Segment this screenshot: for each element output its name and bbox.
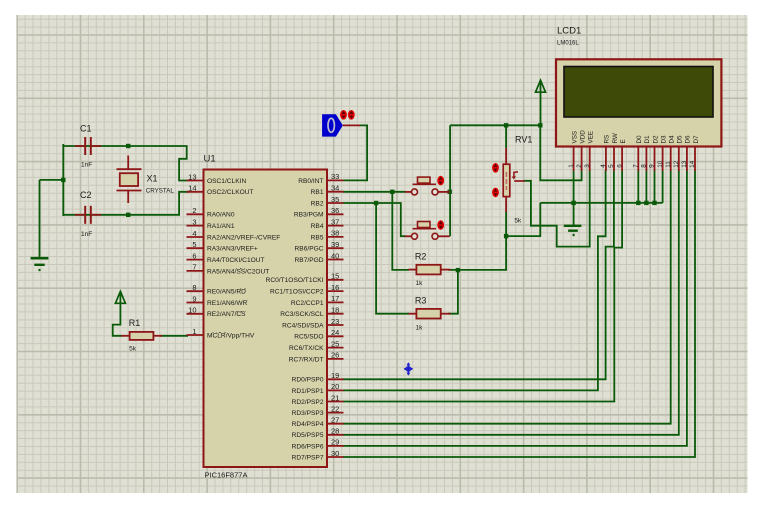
svg-text:U1: U1 [204,154,216,165]
svg-text:R3: R3 [415,296,427,306]
svg-text:RA2/AN2/VREF-/CVREF: RA2/AN2/VREF-/CVREF [207,234,280,241]
svg-text:39: 39 [331,240,339,249]
svg-text:RE0/AN5/RD: RE0/AN5/RD [207,289,246,296]
svg-text:RE1/AN6/WR: RE1/AN6/WR [207,300,248,307]
svg-text:RD7/PSP7: RD7/PSP7 [292,454,324,461]
svg-text:14: 14 [188,184,196,193]
svg-text:RA4/T0CKI/C1OUT: RA4/T0CKI/C1OUT [207,257,265,264]
svg-text:RD4/PSP4: RD4/PSP4 [292,421,324,428]
svg-text:RA5/AN4/SS/C2OUT: RA5/AN4/SS/C2OUT [207,268,269,275]
svg-text:RD3/PSP3: RD3/PSP3 [292,410,324,417]
svg-text:RC4/SDI/SDA: RC4/SDI/SDA [282,322,324,329]
svg-text:34: 34 [331,184,339,193]
svg-text:17: 17 [331,294,339,303]
svg-text:D0: D0 [636,135,643,144]
svg-text:5: 5 [608,164,615,168]
svg-text:21: 21 [331,393,339,402]
svg-text:36: 36 [331,206,339,215]
svg-text:RD2/PSP2: RD2/PSP2 [292,399,324,406]
svg-text:R2: R2 [415,251,427,261]
svg-text:11: 11 [665,161,672,168]
svg-text:35: 35 [331,195,339,204]
svg-text:E: E [620,139,627,143]
svg-text:D3: D3 [660,135,667,144]
svg-text:23: 23 [331,317,339,326]
svg-text:RD6/PSP6: RD6/PSP6 [292,443,324,450]
svg-text:LCD1: LCD1 [557,26,581,37]
svg-text:18: 18 [331,306,339,315]
svg-text:7: 7 [633,164,640,168]
svg-text:D2: D2 [652,135,659,144]
svg-text:RW: RW [612,133,619,143]
svg-text:3: 3 [192,217,196,226]
svg-text:8: 8 [641,164,648,168]
svg-text:16: 16 [331,283,339,292]
svg-text:1k: 1k [416,280,424,287]
svg-text:VDD: VDD [579,130,586,144]
svg-text:RC2/CCP1: RC2/CCP1 [291,300,324,307]
svg-text:CRYSTAL: CRYSTAL [146,188,175,195]
svg-text:RA3/AN3/VREF+: RA3/AN3/VREF+ [207,246,258,253]
svg-text:RC5/SDO: RC5/SDO [294,334,323,341]
svg-text:3: 3 [584,164,591,168]
svg-text:RC0/T1OSO/T1CKI: RC0/T1OSO/T1CKI [266,277,324,284]
svg-text:33: 33 [331,172,339,181]
svg-text:2: 2 [192,206,196,215]
svg-text:28: 28 [331,427,339,436]
svg-text:1: 1 [192,327,196,336]
svg-text:RD1/PSP1: RD1/PSP1 [292,388,324,395]
svg-text:RC3/SCK/SCL: RC3/SCK/SCL [280,311,324,318]
svg-text:1nF: 1nF [81,162,92,169]
svg-text:24: 24 [331,328,339,337]
svg-text:1nF: 1nF [81,231,92,238]
svg-text:40: 40 [331,251,339,260]
svg-text:RD5/PSP5: RD5/PSP5 [292,432,324,439]
svg-text:C2: C2 [80,190,92,200]
svg-text:14: 14 [689,160,696,168]
svg-text:6: 6 [616,164,623,168]
svg-text:VSS: VSS [571,131,578,144]
svg-text:R1: R1 [129,318,141,328]
svg-text:RS: RS [604,135,611,144]
svg-text:37: 37 [331,217,339,226]
svg-text:4: 4 [192,229,196,238]
svg-text:RC7/RX/DT: RC7/RX/DT [289,356,324,363]
svg-text:15: 15 [331,272,339,281]
svg-text:30: 30 [331,449,339,458]
svg-text:RB5: RB5 [311,234,324,241]
svg-text:D4: D4 [669,135,676,144]
svg-text:13: 13 [681,160,688,168]
svg-text:27: 27 [331,416,339,425]
svg-text:29: 29 [331,438,339,447]
svg-text:OSC2/CLKOUT: OSC2/CLKOUT [207,189,254,196]
svg-text:RB3/PGM: RB3/PGM [294,212,324,219]
svg-text:22: 22 [331,404,339,413]
svg-text:5k: 5k [514,217,522,224]
svg-text:RB6/PGC: RB6/PGC [295,246,324,253]
svg-text:5k: 5k [129,346,137,353]
svg-text:D5: D5 [677,135,684,144]
svg-text:RV1: RV1 [515,135,532,145]
svg-text:C1: C1 [80,124,92,134]
svg-text:1k: 1k [416,324,424,331]
svg-text:9: 9 [649,164,656,168]
svg-text:RC6/TX/CK: RC6/TX/CK [289,345,324,352]
svg-text:D1: D1 [644,135,651,144]
svg-text:20: 20 [331,382,339,391]
svg-text:6: 6 [192,251,196,260]
svg-text:8: 8 [192,283,196,292]
svg-text:X1: X1 [147,174,158,184]
svg-text:12: 12 [673,160,680,168]
svg-text:RB4: RB4 [311,223,324,230]
svg-text:RB7/PGD: RB7/PGD [295,257,324,264]
svg-text:OSC1/CLKIN: OSC1/CLKIN [207,178,246,185]
svg-text:25: 25 [331,339,339,348]
svg-text:D6: D6 [685,135,692,144]
svg-text:PIC16F877A: PIC16F877A [205,471,248,480]
svg-text:RC1/T1OSI/CCP2: RC1/T1OSI/CCP2 [270,289,324,296]
svg-text:26: 26 [331,351,339,360]
svg-text:RB0/INT: RB0/INT [298,178,323,185]
svg-text:1: 1 [568,164,575,168]
svg-text:RB2: RB2 [311,200,324,207]
svg-text:38: 38 [331,229,339,238]
svg-text:LM016L: LM016L [557,41,579,47]
svg-text:5: 5 [192,240,196,249]
svg-text:4: 4 [600,164,607,168]
svg-text:RA0/AN0: RA0/AN0 [207,212,235,219]
svg-text:10: 10 [188,306,196,315]
svg-text:RD0/PSP0: RD0/PSP0 [292,377,324,384]
svg-text:2: 2 [576,164,583,168]
svg-text:RA1/AN1: RA1/AN1 [207,223,235,230]
svg-text:10: 10 [657,160,664,168]
svg-text:D7: D7 [693,135,700,144]
svg-text:RB1: RB1 [311,189,324,196]
svg-text:7: 7 [192,263,196,272]
svg-text:19: 19 [331,371,339,380]
svg-text:9: 9 [192,294,196,303]
svg-text:RE2/AN7/CS: RE2/AN7/CS [207,311,246,318]
svg-text:VEE: VEE [588,131,595,144]
svg-text:13: 13 [188,172,196,181]
svg-text:MCLR/Vpp/THV: MCLR/Vpp/THV [207,332,255,339]
